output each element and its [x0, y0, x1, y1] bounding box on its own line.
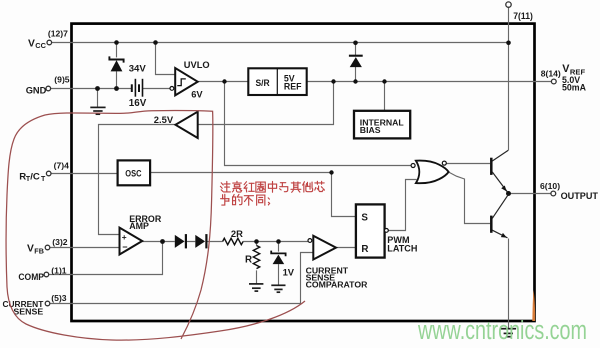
ground under GND rail: [90, 107, 105, 114]
svg-text:GND: GND: [26, 86, 47, 96]
pin COMP: [18, 265, 66, 282]
pin RT/CT: [19, 160, 69, 183]
node UVLO out: [222, 79, 226, 83]
op-amp current sense comparator: [308, 236, 336, 260]
wire 5V feedback to 2.5V buffer: [198, 82, 334, 125]
wire UVLO to OR gate: [225, 82, 412, 166]
wire error amp output: [142, 241, 175, 243]
wire output node to pin: [509, 193, 552, 195]
svg-text:UVLO: UVLO: [184, 60, 210, 70]
wire UVLO output: [198, 81, 249, 83]
zener D1 34V: [109, 56, 123, 71]
diode D2 Vref clamp: [349, 56, 363, 67]
node EA output: [160, 239, 165, 244]
node VCC-pin7: [506, 41, 511, 46]
wire current sense input: [50, 253, 314, 304]
node 2R-1V: [276, 239, 281, 244]
svg-text:COMPARATOR: COMPARATOR: [306, 280, 368, 290]
ground under 1V zener: [271, 285, 285, 292]
wire VREF clamp diode leads: [355, 43, 357, 82]
node GND-tap: [95, 86, 100, 91]
svg-text:BIAS: BIAS: [360, 125, 381, 135]
pin VCC: [28, 28, 68, 50]
pin OUTPUT: [540, 181, 598, 201]
svg-text:34V: 34V: [129, 63, 147, 74]
pin GND: [26, 75, 70, 96]
svg-text:6(10): 6(10): [540, 181, 560, 191]
orange streak artifact: [532, 290, 535, 321]
wire VCC rail: [52, 42, 509, 44]
diode D3: [175, 234, 186, 248]
battery 16V: [132, 79, 143, 97]
ground under Q2 emitter: [501, 329, 517, 337]
wire 2.5V output to error amp: [99, 125, 176, 235]
box S/R + 5V REF: [248, 68, 306, 95]
wire 1V zener leads: [278, 242, 280, 285]
wire pin7(11) vertical: [508, 7, 510, 150]
svg-text:(12)7: (12)7: [48, 28, 68, 38]
pin VREF: [541, 63, 587, 92]
wire comparator to latch R: [336, 247, 356, 249]
svg-text:R: R: [245, 255, 252, 266]
node GND-zener: [114, 86, 119, 91]
svg-text:2R: 2R: [231, 228, 243, 239]
svg-text:16V: 16V: [129, 98, 147, 109]
resistor 2R: [223, 238, 243, 244]
wire ground tap: [97, 89, 99, 108]
zener D5 1V: [271, 251, 285, 265]
OR gate U4: [411, 161, 449, 184]
svg-text:R: R: [361, 244, 368, 255]
svg-text:8(14): 8(14): [541, 68, 561, 78]
svg-text:COMP: COMP: [18, 272, 44, 282]
svg-text:(9)5: (9)5: [54, 75, 70, 85]
node 5Vref fb: [331, 79, 335, 83]
svg-text:REF: REF: [284, 82, 302, 92]
wire Q2 emitter to ground: [508, 239, 510, 329]
node VCC-zener: [114, 40, 119, 45]
pin 7(11) top: [506, 2, 533, 21]
red note text line2: [221, 194, 270, 205]
svg-text:S/R: S/R: [256, 77, 270, 88]
op-amp error amplifier U2: [120, 228, 143, 255]
transistor Q2: [491, 195, 508, 238]
wire COMP pin: [49, 242, 163, 275]
resistor R: [253, 246, 259, 269]
svg-text:FB: FB: [34, 246, 44, 255]
pin VFB: [27, 237, 68, 255]
svg-text:SENSE: SENSE: [13, 307, 43, 317]
svg-text:www.cntronics.com: www.cntronics.com: [417, 317, 587, 345]
op-amp UVLO comparator: [170, 68, 198, 95]
svg-text:(7)4: (7)4: [54, 160, 70, 170]
wire OR output to Q2 base: [449, 172, 491, 224]
transistor Q1: [491, 150, 508, 192]
node VCC-UVLO: [153, 40, 158, 45]
box INTERNAL BIAS: [354, 111, 410, 139]
wire GND rail: [51, 88, 132, 90]
wire OSC output to latch S: [150, 173, 356, 217]
node VCC-diode: [353, 41, 358, 46]
wire latch Q to OR gate: [388, 180, 416, 231]
node OSC corner: [329, 170, 333, 174]
svg-text:1V: 1V: [283, 266, 295, 277]
IC package border: [72, 24, 535, 321]
red annotation loop: [6, 111, 305, 341]
svg-text:(1)1: (1)1: [51, 265, 67, 275]
wire internal bias feed: [384, 82, 386, 111]
node Vref diode: [353, 79, 357, 83]
pin CURRENT SENSE: [3, 293, 67, 317]
diode D4: [195, 234, 206, 248]
svg-text:(5)3: (5)3: [51, 293, 67, 303]
svg-text:OUTPUT: OUTPUT: [561, 191, 599, 201]
wire zener 34V leads: [116, 43, 118, 89]
op-amp 2.5V reference buffer: [176, 112, 198, 138]
svg-text:6V: 6V: [191, 90, 203, 100]
svg-text:V: V: [28, 38, 35, 49]
node 2R-R: [254, 239, 259, 244]
wire UVLO top input from VCC: [156, 43, 176, 75]
svg-text:2.5V: 2.5V: [154, 114, 174, 125]
svg-text:S: S: [361, 212, 368, 223]
svg-text:CC: CC: [35, 41, 46, 50]
svg-text:(3)2: (3)2: [52, 237, 68, 247]
svg-text:AMP: AMP: [129, 221, 149, 231]
svg-text:V: V: [27, 243, 34, 254]
svg-text:7(11): 7(11): [513, 11, 533, 21]
wire OR top output to Q1 base: [446, 163, 490, 165]
svg-text:OSC: OSC: [125, 169, 141, 179]
wire 2R to comparator: [243, 241, 308, 243]
svg-text:+: +: [122, 232, 127, 242]
wire between diodes: [187, 241, 223, 243]
box OSC: [118, 160, 151, 185]
svg-text:LATCH: LATCH: [387, 243, 417, 253]
box PWM latch U3: [356, 204, 388, 257]
wire RT/CT to OSC: [51, 173, 118, 175]
ground under R: [249, 284, 263, 291]
wire battery to UVLO: [143, 88, 170, 90]
node bias: [382, 79, 386, 83]
red note text line1: [220, 181, 324, 192]
svg-text:T: T: [41, 176, 46, 183]
svg-text:−: −: [122, 242, 127, 252]
svg-text:50mA: 50mA: [562, 82, 587, 92]
wire R to ground: [256, 242, 258, 284]
wire VFB input: [50, 247, 120, 249]
svg-text:/C: /C: [30, 172, 40, 183]
wire VREF rail: [307, 81, 552, 83]
node output: [506, 191, 511, 196]
